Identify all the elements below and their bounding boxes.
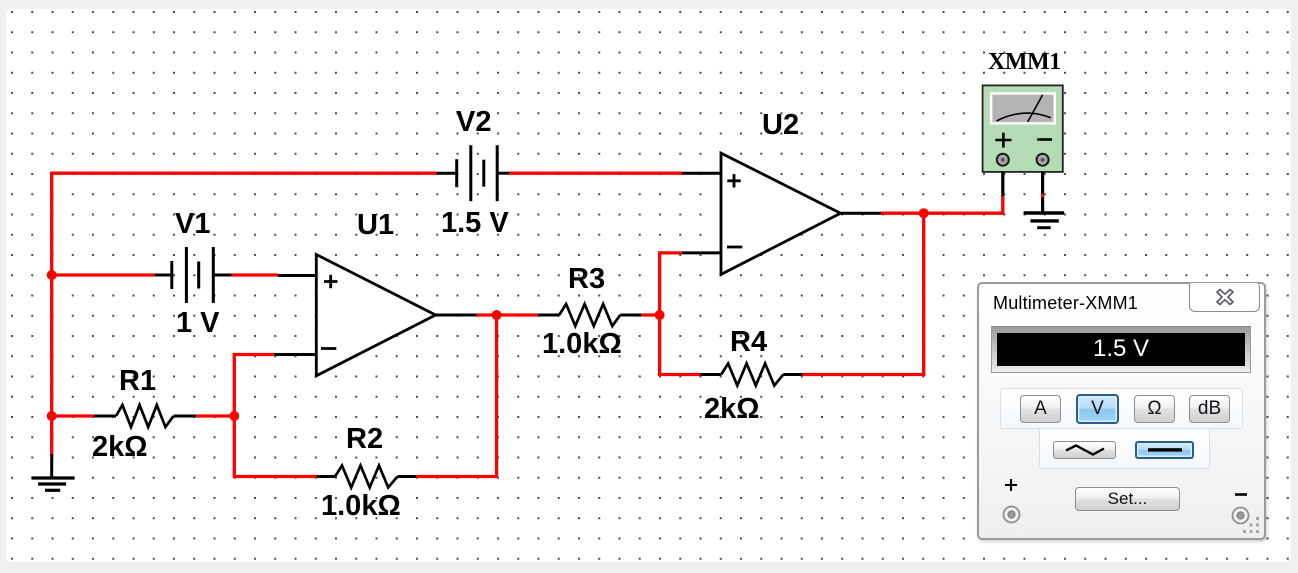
op-amp U1 (274, 255, 476, 376)
wire: R4 to U2 output net (802, 213, 923, 374)
wire: left node to V1 (52, 273, 155, 276)
svg-text:R4: R4 (730, 326, 767, 358)
wire: R2 to U1 output node (416, 315, 497, 477)
wire: R3 to node (641, 313, 659, 316)
button A (1020, 395, 1061, 423)
svg-text:V2: V2 (456, 106, 491, 138)
group box row 2 (1039, 428, 1210, 469)
svg-text:XMM1: XMM1 (988, 49, 1061, 75)
wire: V1 to U1 + input (232, 273, 278, 276)
junction at R1 left / ground net (47, 411, 57, 421)
svg-text:1 V: 1 V (176, 307, 220, 339)
wire: R1 to U1 - input net (196, 355, 274, 417)
close button (1189, 283, 1260, 312)
resistor R4 (700, 364, 802, 386)
plus terminal label (1004, 478, 1018, 492)
svg-text:R1: R1 (119, 365, 156, 397)
svg-text:U2: U2 (762, 109, 799, 141)
button DC (selected) (1135, 441, 1194, 459)
junction at R3 right / U2 inverting net (655, 310, 665, 320)
op-amp U2 (682, 153, 881, 274)
resize grip (1242, 516, 1262, 536)
button AC (1053, 441, 1116, 459)
svg-text:1.0kΩ: 1.0kΩ (542, 328, 622, 360)
junction at V1 left / top net (47, 270, 57, 280)
button dB (1189, 395, 1230, 423)
button Set (1075, 487, 1180, 511)
svg-text:1.0kΩ: 1.0kΩ (321, 490, 401, 522)
svg-text:R3: R3 (568, 263, 605, 295)
svg-text:2kΩ: 2kΩ (704, 393, 760, 425)
wire: left node to R1 (52, 414, 94, 417)
battery V1 (155, 247, 232, 303)
battery V2 (437, 145, 509, 201)
title (993, 293, 1138, 314)
group box row 1 (1000, 388, 1243, 429)
terminal + socket (1002, 505, 1021, 524)
svg-text:V1: V1 (175, 208, 210, 240)
resistor R3 (538, 304, 641, 326)
minus terminal label (1235, 492, 1247, 497)
button V (selected) (1076, 394, 1119, 424)
wire: top net from left corner to V2 (52, 173, 437, 456)
wire: node down to R4 (660, 315, 701, 375)
button Ohm (1134, 395, 1175, 423)
wire: node up to U2 - input (660, 253, 682, 315)
multimeter XMM1 icon (983, 85, 1063, 171)
terminal - socket (1231, 506, 1250, 525)
junction at R1 right / U1 inverting net (229, 411, 239, 421)
wire: V2 to U2 + input (509, 172, 682, 175)
svg-text:U1: U1 (357, 209, 394, 241)
svg-text:1.5 V: 1.5 V (441, 207, 509, 239)
junction at U2 output net (919, 208, 929, 218)
svg-text:2kΩ: 2kΩ (92, 431, 148, 463)
LCD display (991, 326, 1251, 373)
resistor R1 (94, 405, 196, 427)
wire: U2 output to XMM1 + (881, 195, 1003, 213)
wire: XMM1 - lead to ground (1041, 172, 1044, 213)
junction at U1 output net (492, 310, 502, 320)
wire: U1 output to R3 (477, 313, 539, 316)
wire: node to R2 (234, 416, 316, 477)
pin dot on - lead (1041, 194, 1044, 198)
wire: XMM1 + lead (1001, 172, 1004, 196)
resistor R2 (317, 466, 416, 488)
svg-text:R2: R2 (346, 423, 383, 455)
ground (left) (32, 454, 75, 490)
multimeter panel window (977, 282, 1266, 540)
ground (XMM1) (1024, 213, 1065, 228)
